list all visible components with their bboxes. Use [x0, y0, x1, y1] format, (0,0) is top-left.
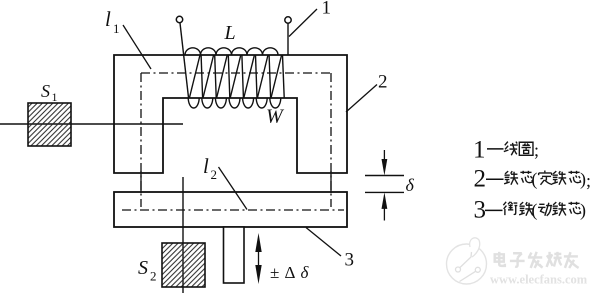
- motion double arrow: [255, 233, 261, 284]
- wire vertical rod: [182, 177, 184, 293]
- svg-text:(: (: [531, 169, 537, 190]
- svg-text:S: S: [41, 81, 50, 101]
- svg-text:±: ±: [270, 263, 279, 282]
- air gap dimension ticks: [365, 150, 404, 221]
- svg-text:L: L: [224, 22, 236, 44]
- svg-text:(: (: [531, 200, 537, 221]
- svg-text:1: 1: [52, 90, 58, 104]
- centerline solid segment across left air gap: [140, 171, 142, 193]
- core dash-dot centerline: [141, 73, 331, 207]
- svg-text:3: 3: [345, 250, 355, 271]
- legend: [473, 137, 591, 224]
- watermark text: [495, 252, 505, 266]
- svg-text:www.elecfans.com: www.elecfans.com: [490, 273, 588, 287]
- svg-text:3: 3: [474, 197, 487, 224]
- centerline solid segment across right air gap: [330, 171, 332, 193]
- svg-text:): ): [580, 200, 586, 221]
- plunger stem: [224, 227, 245, 283]
- svg-text:2: 2: [378, 72, 388, 93]
- svg-text:l: l: [105, 7, 111, 31]
- svg-text:Δ: Δ: [285, 263, 296, 282]
- svg-text:1: 1: [113, 21, 120, 36]
- svg-text:W: W: [266, 106, 285, 128]
- svg-text:δ: δ: [406, 175, 415, 195]
- terminal right: [285, 17, 291, 23]
- svg-text:;: ;: [534, 140, 539, 160]
- svg-text:δ: δ: [301, 263, 310, 282]
- svg-text:2: 2: [474, 166, 487, 193]
- cross-section S1 (hatched): [28, 103, 71, 146]
- coil L windings: [180, 23, 284, 108]
- iron core U1 (fixed core, item 2) outline: [114, 55, 347, 173]
- svg-text:1: 1: [473, 137, 486, 164]
- svg-text:2: 2: [211, 167, 218, 182]
- svg-text:S: S: [138, 257, 148, 279]
- wire horizontal through S1: [0, 123, 183, 125]
- svg-text:l: l: [203, 154, 209, 178]
- armature dash-dot centerline: [122, 209, 344, 211]
- terminal left: [176, 16, 182, 22]
- cross-section S2 (hatched): [162, 243, 205, 287]
- watermark logo: [447, 238, 588, 287]
- svg-text:2: 2: [150, 269, 157, 284]
- armature (item 3): [114, 192, 347, 227]
- svg-text:;: ;: [586, 171, 591, 191]
- wire right terminal lead: [287, 23, 289, 55]
- svg-text:1: 1: [322, 0, 332, 19]
